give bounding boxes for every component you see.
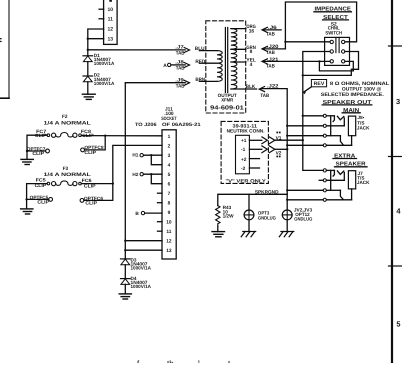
pin 9 partial glyph <box>109 0 112 2</box>
clip FC8 <box>73 133 77 137</box>
tab J6 <box>262 25 281 37</box>
svg-text:12: 12 <box>108 26 114 32</box>
svg-text:TAB: TAB <box>266 32 275 38</box>
svg-text:CLIP: CLIP <box>85 201 97 206</box>
svg-text:11: 11 <box>108 17 114 23</box>
diode D2 1N4007 <box>83 73 115 86</box>
wire SPKRGND <box>218 194 287 205</box>
svg-text:+1: +1 <box>241 138 247 144</box>
wire speaker hot bus <box>303 75 323 170</box>
svg-text:JACK: JACK <box>357 125 370 130</box>
left block bottom edge <box>0 97 9 99</box>
svg-text:CLIP: CLIP <box>84 150 96 155</box>
tab J8 <box>175 60 189 72</box>
ground (earth) F2 <box>21 159 33 164</box>
fuse F3 1/4A <box>21 145 162 214</box>
svg-text:9: 9 <box>168 210 171 216</box>
svg-text:OUTPUT 100V @: OUTPUT 100V @ <box>342 86 382 92</box>
pin 11 stub <box>99 18 104 20</box>
transformer core <box>224 28 226 93</box>
ground (earth) F3 <box>21 209 33 214</box>
tab J22 + wire down to speaker return bus <box>259 84 287 210</box>
svg-text:3: 3 <box>168 153 171 159</box>
label J7 T/S JACK <box>357 171 370 185</box>
clip FC7 <box>47 134 50 137</box>
chassis ground <box>279 232 294 237</box>
junction hot/main tip <box>302 115 304 117</box>
tip contact <box>337 116 343 120</box>
transformer T1 dashed outline <box>206 21 246 113</box>
wire pin 13 <box>125 249 162 251</box>
svg-text:XFMR: XFMR <box>221 97 233 103</box>
svg-text:10: 10 <box>166 219 172 225</box>
svg-text:H2: H2 <box>132 172 138 177</box>
svg-text:BLU: BLU <box>195 46 205 52</box>
ground (earth) below D4 <box>119 294 131 299</box>
wire pin12 <box>88 29 104 39</box>
neutrik connector body <box>236 135 250 174</box>
tab J7 <box>175 45 189 57</box>
svg-text:1000V/1A: 1000V/1A <box>131 266 152 271</box>
label J8 T/S JACK <box>357 115 370 130</box>
svg-text:CLIP: CLIP <box>32 151 44 156</box>
svg-text:1/2W: 1/2W <box>223 213 235 218</box>
wire S2 mid-left to speaker hot <box>303 52 330 76</box>
internal wiring <box>326 115 334 117</box>
svg-text:10: 10 <box>108 7 114 13</box>
wire RED lead <box>199 62 217 64</box>
svg-text:RED: RED <box>195 59 205 65</box>
svg-text:F3: F3 <box>63 166 69 172</box>
junction OPTFC8 <box>104 135 106 137</box>
svg-text:SOCKET: SOCKET <box>161 116 176 122</box>
svg-text:NEUTRIK CONN.: NEUTRIK CONN. <box>227 128 265 134</box>
jack J7 (extra speaker) <box>319 169 370 202</box>
svg-text:H1: H1 <box>132 153 138 158</box>
wire F3 left to ground <box>27 184 47 209</box>
left block right edge <box>8 0 10 98</box>
pin 10 stub <box>99 8 104 10</box>
J11 spare pin stubs 7,8,10,11 <box>158 193 163 231</box>
S2 actuator bars <box>335 37 337 52</box>
ground (earth) below D2 <box>82 94 95 99</box>
svg-text:TAB: TAB <box>176 66 185 72</box>
note text 8 ohms nominal <box>321 81 390 98</box>
label IMPEDANCE SELECT <box>315 7 352 37</box>
svg-text:.J7: .J7 <box>175 45 184 51</box>
svg-text:12: 12 <box>166 238 172 244</box>
neutrik connector dashed outline <box>221 121 268 183</box>
svg-text:V2: V2 <box>276 150 282 156</box>
cut-off block at left edge <box>0 0 9 98</box>
S2 contact circles <box>330 40 345 63</box>
svg-text:TO J206: TO J206 <box>135 122 157 128</box>
switch S2 body <box>325 37 350 65</box>
junction OPTFC6 <box>112 182 114 184</box>
ring contact <box>340 190 343 199</box>
svg-text:16: 16 <box>249 28 255 34</box>
wire D2-ground <box>87 82 89 94</box>
wire BLU lead <box>199 50 217 52</box>
wire lug to chassis <box>286 220 288 232</box>
wire S2 bottom row loop <box>319 61 353 71</box>
label 39-931-11 NEUTRIK CONN. <box>227 124 265 135</box>
wire S2 mid-right series link <box>303 52 359 76</box>
wire BRN lead <box>199 80 217 82</box>
tab J9 <box>175 78 189 90</box>
svg-text:13: 13 <box>108 37 114 43</box>
cut text fragment at left edge <box>0 38 2 42</box>
node H2 to pins 5,6 <box>132 172 162 184</box>
node H1 to pins 3,4 <box>132 153 162 165</box>
clip FC5 <box>47 182 50 185</box>
svg-text:.J6: .J6 <box>268 25 277 31</box>
wires extra jack returns <box>287 189 323 191</box>
wire FC6 to J11 pin2 <box>81 145 162 183</box>
wire pin13 <box>88 38 104 40</box>
zone tick y266 <box>389 265 402 267</box>
jack J8 (main speaker out) <box>287 114 370 147</box>
tab J21 + wire to S2 <box>262 57 330 70</box>
cut text fragments at bottom edge <box>137 359 231 368</box>
terminal circles <box>323 114 326 147</box>
svg-text:OF 06A295-21: OF 06A295-21 <box>162 122 201 128</box>
svg-text:SWITCH: SWITCH <box>325 31 342 37</box>
svg-text:CLIP: CLIP <box>37 200 49 205</box>
svg-text:TAB: TAB <box>260 93 269 99</box>
tip contact <box>337 171 343 175</box>
clip OPTFC8 <box>85 136 106 150</box>
svg-text:8: 8 <box>168 200 171 206</box>
svg-text:.J21: .J21 <box>267 57 279 63</box>
fuse element <box>56 181 73 185</box>
wire bus J19 down left side <box>124 83 126 259</box>
connector (top, cut off) pins 9-13 <box>87 0 117 44</box>
junction S2 bottom row / J21 <box>318 60 320 62</box>
sheet border (right edge) <box>389 0 402 363</box>
terminal circles <box>323 169 326 202</box>
svg-text:+2: +2 <box>241 157 247 163</box>
junction pin13 <box>87 38 89 40</box>
svg-text:1/4 A NORMAL: 1/4 A NORMAL <box>44 172 91 178</box>
wire F2 left to ground <box>27 135 47 159</box>
svg-text:GNDLUG: GNDLUG <box>258 215 276 220</box>
connector J11 body <box>162 130 176 259</box>
label J11 .100 SOCKET <box>135 106 201 127</box>
wire to S2 top-left pin <box>285 41 330 43</box>
clip OPTFC5 <box>27 198 49 200</box>
terminal wires <box>303 115 323 117</box>
svg-text:3: 3 <box>396 97 400 106</box>
svg-text:11: 11 <box>166 229 171 235</box>
ground (earth) below R43 <box>212 232 225 237</box>
svg-text:1000V/1A: 1000V/1A <box>94 61 115 66</box>
svg-text:2: 2 <box>168 143 171 149</box>
wire ORG lead 16 <box>231 28 246 30</box>
svg-text:.J20: .J20 <box>267 44 279 50</box>
svg-text:GNDLUG: GNDLUG <box>294 216 312 221</box>
shunt contact <box>333 170 334 176</box>
svg-text:th: th <box>167 359 174 363</box>
svg-text:5: 5 <box>168 172 171 178</box>
node B to pin 9 <box>135 211 162 216</box>
fuse element <box>56 133 73 137</box>
svg-text:"V" VER ONLY: "V" VER ONLY <box>225 178 266 184</box>
svg-text:.J9: .J9 <box>175 78 184 84</box>
J11 pin numbers <box>166 134 172 254</box>
junction hot/V1 <box>302 139 304 141</box>
svg-text:V1: V1 <box>276 135 282 141</box>
svg-text:94-609-01: 94-609-01 <box>210 105 245 112</box>
svg-text:5: 5 <box>396 320 400 329</box>
wire D4-ground <box>124 284 126 294</box>
wire lug to chassis <box>248 220 250 232</box>
svg-text:JACK: JACK <box>357 180 370 185</box>
junction OPTFC7 <box>26 150 28 152</box>
clip OPTFC7 <box>27 150 46 152</box>
diode D3 1N4007 <box>121 257 152 270</box>
fuse F2 1/4A <box>21 114 162 164</box>
svg-text:.J8: .J8 <box>175 60 184 66</box>
svg-text:SELECTED IMPEDANCE.: SELECTED IMPEDANCE. <box>321 92 385 98</box>
svg-text:J8▪: J8▪ <box>357 115 364 120</box>
junctions on return bus <box>286 125 288 127</box>
junction J7 branch <box>87 49 89 51</box>
transformer primary winding <box>217 51 222 82</box>
svg-text:1/4 A NORMAL: 1/4 A NORMAL <box>44 121 91 127</box>
svg-text:7: 7 <box>168 191 171 197</box>
svg-text:8 Ω OHMS, NOMINAL: 8 Ω OHMS, NOMINAL <box>330 81 390 87</box>
svg-text:4: 4 <box>168 162 171 168</box>
svg-text:4: 4 <box>250 62 253 68</box>
wire R43 to ground <box>217 226 219 231</box>
ring contact <box>340 136 343 145</box>
zone tick y156.5 <box>389 156 402 158</box>
REV flag callout <box>303 80 327 95</box>
wire BLK lead <box>231 88 257 90</box>
zone tick y46 <box>389 45 402 47</box>
diode D1 1N4007 <box>83 53 115 66</box>
V1 output arrows <box>262 132 303 144</box>
wire D1-D2 <box>87 62 89 76</box>
junction GRN/switch <box>284 41 286 43</box>
svg-text:1: 1 <box>168 134 171 140</box>
svg-text:-1: -1 <box>241 147 246 153</box>
diode D4 1N4007 <box>121 276 152 289</box>
svg-text:FC6: FC6 <box>82 178 92 183</box>
chassis ground <box>241 232 256 237</box>
svg-text:.J22: .J22 <box>267 84 279 90</box>
ground lug OPT3 <box>241 194 276 237</box>
wire GRN lead 8 <box>231 48 246 50</box>
svg-text:REV: REV <box>314 81 325 87</box>
svg-text:TAB: TAB <box>266 50 275 56</box>
svg-text:F2: F2 <box>62 114 68 120</box>
svg-text:l: l <box>198 359 200 363</box>
svg-text:BRN: BRN <box>195 77 205 83</box>
node A <box>163 63 185 69</box>
jack body <box>348 171 355 189</box>
wire to diode chain <box>87 39 89 56</box>
transformer secondary winding <box>231 29 237 89</box>
svg-text:TAB: TAB <box>176 51 185 57</box>
tab J20 + wire to switch loop <box>262 44 285 56</box>
shunt contact <box>333 116 334 122</box>
svg-text:BLK: BLK <box>246 84 256 90</box>
svg-text:-2: -2 <box>241 166 246 172</box>
svg-text:TAB: TAB <box>266 64 275 70</box>
jack body <box>348 116 355 136</box>
ground lug JV2,JV3 OPT12 <box>279 208 312 237</box>
wire GRN riser to top <box>285 2 356 49</box>
resistor R43 <box>216 205 235 226</box>
internal wiring <box>326 169 334 171</box>
svg-text:1000V/1A: 1000V/1A <box>94 81 115 86</box>
svg-text:13: 13 <box>166 248 172 254</box>
V2 output arrows <box>262 146 287 157</box>
stub terminal 2 <box>319 179 323 181</box>
wire YEL lead 4 <box>231 61 246 63</box>
wire pin 12 <box>125 240 162 242</box>
svg-text:6: 6 <box>168 181 171 187</box>
junction OPTFC5 <box>25 198 27 200</box>
svg-text:TAB: TAB <box>176 83 185 89</box>
junction speaker hot <box>302 74 304 76</box>
wire to J9 tab <box>125 82 185 84</box>
wire D3-D4 <box>124 265 126 279</box>
wire to J7 tab <box>88 49 185 51</box>
svg-text:A: A <box>163 63 167 69</box>
wire FC8 to J11 pin1 <box>81 135 162 137</box>
svg-text:8: 8 <box>250 49 253 55</box>
clip OPTFC6 <box>84 184 113 201</box>
svg-text:1000V/1A: 1000V/1A <box>131 284 152 289</box>
clip FC6 <box>73 182 77 186</box>
